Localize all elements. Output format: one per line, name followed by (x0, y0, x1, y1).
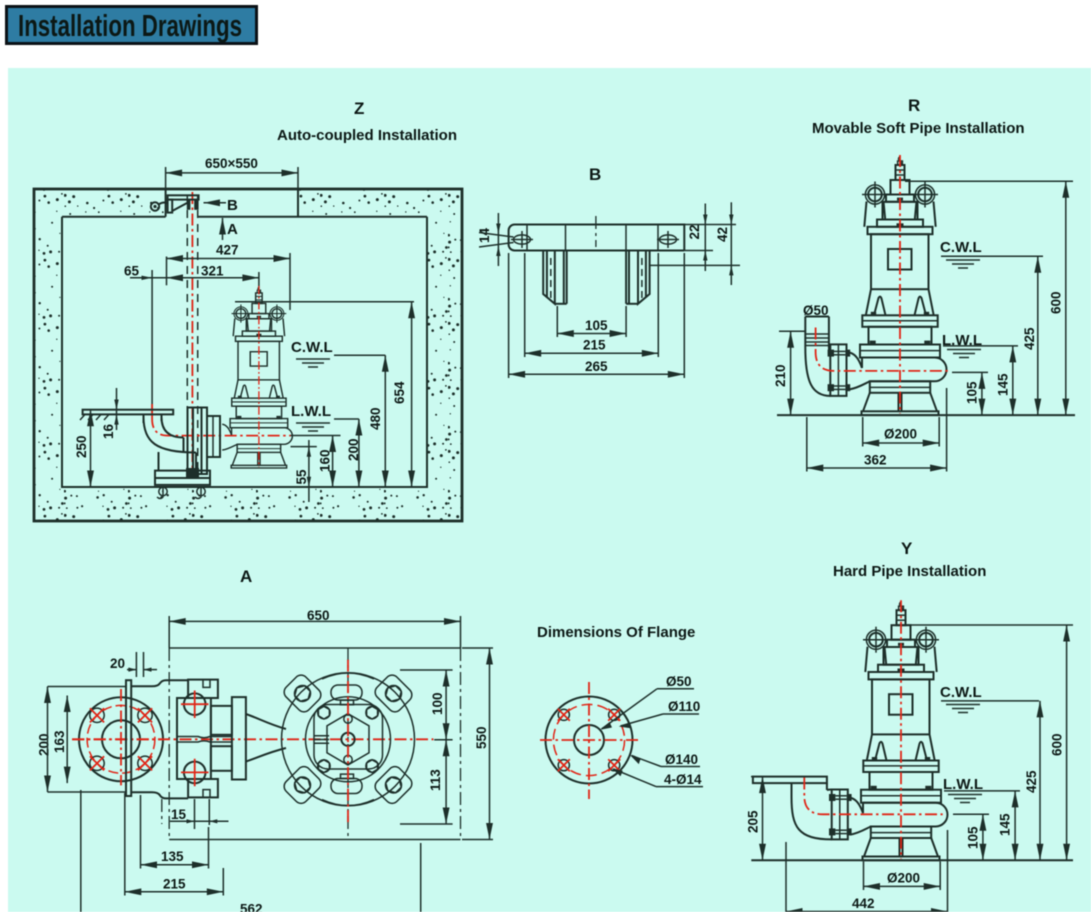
main horizontal centerline (72, 738, 434, 740)
dim 55 (294, 440, 311, 502)
dim 215 (125, 793, 224, 896)
dim 145 (996, 346, 1013, 415)
svg-text:Ø110: Ø110 (668, 699, 700, 714)
dim 200 (346, 419, 361, 487)
svg-text:321: 321 (201, 264, 224, 279)
svg-text:42: 42 (715, 227, 730, 242)
hard pipe top plate (753, 777, 827, 784)
dim 163 (52, 696, 67, 784)
dim 20 (110, 652, 157, 677)
top plate (509, 225, 685, 251)
svg-text:Z: Z (354, 99, 364, 118)
dim 135 (141, 795, 209, 869)
leader 4-D14 (612, 768, 703, 787)
svg-text:160: 160 (318, 449, 333, 472)
svg-text:105: 105 (585, 318, 608, 333)
svg-text:427: 427 (216, 243, 239, 258)
top reference line 600 Y (906, 624, 1073, 626)
svg-text:600: 600 (1049, 291, 1064, 314)
svg-text:16: 16 (101, 423, 116, 439)
anchor bolts in floor (157, 487, 205, 499)
dim 16 (101, 388, 119, 439)
opening rectangle 650x550 (169, 648, 460, 840)
svg-text:22: 22 (687, 224, 702, 239)
rect side centerlines (168, 648, 170, 840)
dim 654 (392, 302, 412, 487)
red pipe centerline (816, 328, 950, 371)
dim 205 (746, 777, 763, 861)
label B with arrow (204, 197, 239, 214)
svg-text:4-Ø14: 4-Ø14 (664, 772, 702, 787)
svg-text:A: A (227, 221, 238, 238)
C.W.L label R (940, 239, 1043, 268)
dim 113 (400, 740, 453, 824)
label A with arrow (223, 218, 239, 240)
ref line 55 (291, 446, 317, 448)
dim 425 (1022, 256, 1038, 415)
dim 265 (509, 253, 685, 378)
svg-text:C.W.L: C.W.L (940, 684, 982, 701)
dim 200 (37, 687, 127, 793)
right slot bolt (657, 231, 679, 248)
flange crosshair red (72, 689, 163, 785)
svg-text:210: 210 (773, 364, 788, 387)
svg-text:A: A (240, 567, 252, 586)
suction flange circle (79, 697, 163, 781)
red discharge centerline Z (152, 416, 290, 436)
svg-text:200: 200 (37, 733, 52, 756)
flange bolts with red crosses (90, 708, 152, 770)
guide claw bracket (186, 408, 220, 478)
svg-text:562: 562 (240, 902, 263, 912)
center mark (595, 216, 597, 247)
right hanger (626, 251, 650, 304)
guide claw plan (177, 680, 246, 798)
L.W.L label (291, 403, 359, 431)
top reference line 600 (905, 180, 1073, 182)
dim 362 (807, 388, 947, 472)
pit inner walls (62, 217, 427, 487)
svg-text:145: 145 (998, 813, 1013, 836)
pump (Z, scaled copy) (222, 286, 292, 468)
svg-text:Y: Y (901, 539, 913, 558)
svg-text:650×550: 650×550 (205, 156, 258, 171)
inner hub: rounded square + hexes (314, 705, 383, 773)
claw bolt red crosses (181, 691, 209, 787)
C.W.L label Y (940, 684, 1039, 713)
discharge vertical pipe (144, 414, 162, 423)
svg-text:C.W.L: C.W.L (940, 239, 982, 256)
svg-text:Ø200: Ø200 (884, 427, 917, 442)
svg-text:215: 215 (163, 877, 186, 892)
svg-text:L.W.L: L.W.L (291, 403, 331, 420)
bolt circle red dashed (553, 704, 624, 775)
pit wall speckled bands (34, 189, 462, 521)
dim 215 (525, 253, 659, 357)
red pipe centerline Y (804, 778, 942, 815)
duckfoot base frame (155, 471, 210, 485)
svg-text:20: 20 (110, 656, 125, 671)
svg-text:Ø50: Ø50 (666, 674, 692, 689)
dim 600 Y (1050, 625, 1067, 860)
dim 600 (1049, 181, 1066, 415)
pump top reference line (235, 301, 414, 303)
pump Y (850, 600, 947, 860)
flange bore (574, 725, 604, 755)
svg-text:Ø140: Ø140 (665, 752, 698, 767)
leader D50 (601, 674, 695, 730)
anchor hook left of bracket (151, 202, 168, 210)
svg-text:163: 163 (52, 730, 67, 753)
body outline to claw (131, 680, 188, 798)
dim 480 (368, 355, 385, 487)
dim 160 (318, 436, 333, 488)
discharge flange pair Y (829, 790, 852, 840)
C.W.L label (291, 339, 385, 367)
red discharge pipe tick (151, 404, 153, 416)
dim 550 (462, 648, 493, 840)
svg-text:55: 55 (294, 469, 309, 485)
svg-text:Ø200: Ø200 (887, 871, 920, 886)
svg-text:113: 113 (428, 769, 443, 791)
svg-text:B: B (589, 165, 601, 184)
dim 105 (557, 306, 626, 337)
pit outer rectangle (34, 189, 462, 521)
svg-text:Ø50: Ø50 (803, 303, 829, 318)
svg-text:135: 135 (161, 849, 184, 864)
pump circle red crosshair (347, 660, 349, 824)
svg-text:550: 550 (474, 726, 489, 749)
dim 425 Y (1024, 701, 1040, 860)
dim 442 (786, 830, 948, 912)
svg-text:442: 442 (852, 896, 875, 911)
dim 65 (124, 264, 167, 414)
svg-text:R: R (908, 96, 920, 115)
title bar (7, 7, 257, 44)
leader D140 (630, 752, 700, 767)
dim 321 (167, 264, 259, 291)
dim 250 (74, 410, 91, 487)
left hanger (543, 251, 567, 304)
red crosshair (540, 682, 641, 799)
pump vertical centerline (347, 648, 349, 840)
svg-text:250: 250 (74, 435, 89, 458)
duckfoot elbow (144, 417, 197, 471)
4 bolt holes with red slashes (558, 709, 620, 771)
dim 14 with leaders (477, 213, 514, 266)
ref line 160 (291, 435, 341, 437)
support plate (80, 410, 173, 420)
guide rail (dashed) with red centerline (187, 192, 197, 478)
left slot bolt (511, 231, 533, 248)
dim 562 (clipped at bottom) (81, 790, 421, 912)
dim 42 (650, 202, 740, 285)
flange bolt circle (red dashed) (87, 705, 155, 773)
svg-text:105: 105 (965, 381, 980, 404)
pit opening edges (165, 189, 167, 217)
svg-text:100: 100 (430, 692, 445, 715)
hard pipe elbow (792, 790, 832, 840)
svg-text:Dimensions Of Flange: Dimensions Of Flange (537, 624, 695, 641)
base ground line (777, 414, 1075, 416)
ref line 105 Y (953, 813, 989, 815)
svg-text:480: 480 (368, 407, 383, 430)
svg-text:Auto-coupled Installation: Auto-coupled Installation (277, 127, 457, 144)
dim 210 (773, 331, 805, 415)
svg-text:65: 65 (124, 264, 140, 279)
dim 650x550 (166, 156, 298, 189)
L.W.L label R (942, 332, 1018, 358)
inlet nozzle curves (246, 714, 286, 762)
north pad (322, 673, 374, 705)
dim 100 (400, 670, 453, 740)
svg-text:105: 105 (966, 826, 981, 849)
dim D200 Y (864, 862, 941, 891)
svg-text:C.W.L: C.W.L (291, 339, 333, 356)
svg-text:654: 654 (392, 381, 407, 404)
svg-text:B: B (227, 197, 238, 214)
flange outer circle (546, 697, 633, 784)
base ground line Y (751, 859, 1073, 861)
volute plan view (282, 673, 415, 806)
svg-text:Installation Drawings: Installation Drawings (18, 8, 242, 43)
dim 22 (684, 204, 736, 272)
svg-text:425: 425 (1024, 770, 1039, 793)
svg-text:14: 14 (477, 227, 492, 243)
hard pipe riser (792, 783, 827, 797)
flange neck plate (126, 680, 131, 796)
dim D200 (863, 417, 940, 447)
rail top bracket (168, 195, 199, 212)
svg-text:145: 145 (996, 373, 1011, 396)
dim 105 Y (966, 814, 983, 860)
L.W.L label Y (943, 776, 1020, 803)
dim 427 (167, 243, 291, 311)
svg-text:265: 265 (585, 359, 608, 374)
elbow (805, 347, 830, 396)
dim 15 (162, 799, 229, 829)
svg-text:Hard Pipe Installation: Hard Pipe Installation (833, 563, 986, 580)
leader D110 (619, 699, 701, 728)
dim 105 (965, 372, 982, 415)
dim 650 (169, 608, 460, 648)
svg-text:362: 362 (864, 453, 887, 468)
svg-text:425: 425 (1022, 327, 1037, 350)
ref line 105 (952, 371, 988, 373)
corner ears with bolts (281, 672, 323, 714)
svg-text:215: 215 (583, 338, 606, 353)
dim 145 Y (998, 791, 1016, 860)
svg-text:Movable Soft Pipe Installation: Movable Soft Pipe Installation (812, 120, 1025, 137)
discharge flange pair (828, 344, 851, 396)
svg-text:205: 205 (746, 810, 761, 833)
south pad (322, 774, 374, 805)
svg-text:15: 15 (171, 807, 187, 822)
soft pipe riser (805, 317, 829, 348)
pump R (849, 155, 946, 415)
svg-text:600: 600 (1050, 733, 1065, 756)
